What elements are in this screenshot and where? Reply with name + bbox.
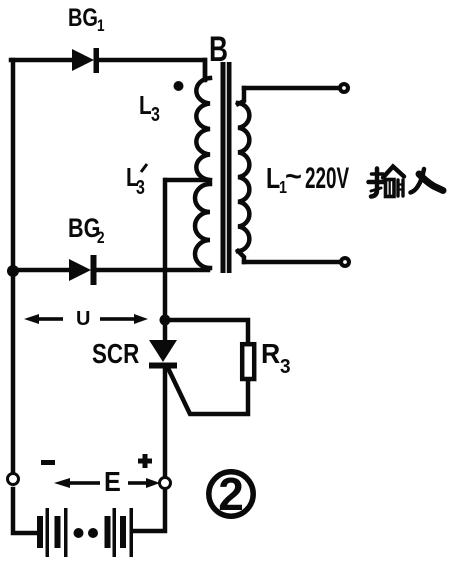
svg-text:E: E	[104, 466, 121, 498]
svg-text:BG: BG	[68, 4, 98, 32]
svg-text:U: U	[76, 308, 90, 330]
svg-text:L: L	[266, 161, 280, 194]
svg-text:BG: BG	[68, 214, 100, 244]
svg-text:3: 3	[151, 103, 160, 125]
svg-text:R: R	[261, 337, 280, 369]
svg-text:3: 3	[136, 176, 145, 198]
svg-text:SCR: SCR	[92, 339, 139, 370]
svg-text:220V: 220V	[305, 162, 349, 196]
svg-text:2: 2	[97, 229, 105, 248]
svg-text:1: 1	[97, 17, 105, 36]
svg-text:3: 3	[280, 356, 291, 379]
svg-text:L: L	[139, 91, 152, 120]
svg-text:2: 2	[218, 468, 244, 520]
svg-text:B: B	[209, 29, 228, 69]
svg-text:~: ~	[285, 161, 302, 193]
